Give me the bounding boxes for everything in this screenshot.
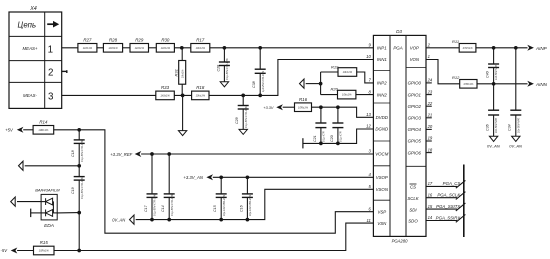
capacitor C29 (235, 95, 249, 129)
wire -5V rail to VSN (54, 223, 373, 250)
svg-text:R29: R29 (135, 38, 144, 43)
svg-text:DGND: DGND (375, 127, 388, 132)
net +3.3V_REF (110, 151, 373, 157)
resistor R30 (156, 38, 174, 53)
svg-text:1n0-50V-NP0: 1n0-50V-NP0 (495, 64, 498, 80)
net AINP (527, 45, 547, 51)
resistor R18 (192, 85, 209, 100)
net flag PGA_CS (426, 180, 465, 188)
resistor R27 (78, 38, 97, 53)
svg-text:GPIO4: GPIO4 (408, 127, 422, 132)
svg-text:0V_AN: 0V_AN (509, 144, 522, 149)
svg-text:C34: C34 (508, 124, 512, 131)
svg-text:13: 13 (366, 112, 371, 117)
svg-text:C38: C38 (252, 81, 256, 88)
svg-text:VOP: VOP (410, 46, 419, 51)
wire VON (426, 60, 460, 84)
net flag PGA_SSIRX (426, 215, 465, 223)
svg-text:47R±1%: 47R±1% (463, 82, 474, 86)
node junction (77, 164, 81, 168)
svg-text:0.1µ-50V-X7R-10%: 0.1µ-50V-X7R-10% (81, 140, 84, 162)
node junction (219, 218, 223, 222)
resistor R20 (321, 87, 374, 99)
svg-text:R14: R14 (39, 120, 48, 125)
node junction C16 (246, 175, 250, 179)
svg-text:GPIO0: GPIO0 (408, 81, 422, 86)
node junction (319, 142, 323, 146)
node junction (77, 249, 81, 253)
svg-text:PGA_SCLK: PGA_SCLK (437, 193, 461, 198)
svg-text:10µ-16V-X5R-20%: 10µ-16V-X5R-20% (223, 194, 226, 216)
svg-text:EDA: EDA (44, 223, 54, 229)
wire to DVDD (312, 107, 374, 117)
node junction (319, 72, 323, 95)
svg-text:PGA_SSIRX: PGA_SSIRX (436, 215, 462, 220)
svg-text:+3.3V_AN: +3.3V_AN (183, 175, 203, 180)
node junction diode (77, 211, 81, 215)
bus line SPI (463, 165, 465, 238)
svg-text:0.1µ-X7R: 0.1µ-X7R (340, 131, 343, 142)
svg-text:C19: C19 (71, 187, 75, 194)
svg-text:0.1µ-50V-X7R-10%: 0.1µ-50V-X7R-10% (245, 106, 248, 128)
svg-text:10: 10 (366, 54, 371, 59)
svg-text:10n-50V-NP0: 10n-50V-NP0 (517, 117, 520, 133)
ground (220, 82, 228, 87)
svg-text:GPIO6: GPIO6 (408, 150, 422, 155)
wire (123, 47, 130, 49)
wire to AINN (477, 83, 528, 85)
net AINN (527, 81, 547, 87)
capacitor C17 (144, 154, 158, 220)
svg-text:1k0±1%: 1k0±1% (160, 94, 170, 98)
resistor R14 (33, 120, 54, 135)
svg-text:MEAS-: MEAS- (23, 93, 37, 98)
node junction C28 (223, 46, 227, 50)
capacitor C19 (71, 166, 85, 213)
svg-text:C20: C20 (330, 135, 334, 142)
svg-text:AINP: AINP (535, 46, 548, 51)
svg-text:20: 20 (427, 124, 433, 129)
svg-text:0.1µ-50V-X7R-10%: 0.1µ-50V-X7R-10% (154, 194, 157, 216)
svg-text:GPIO1: GPIO1 (408, 92, 422, 97)
node junction C40 (492, 46, 496, 50)
wire to -5V rail (78, 213, 80, 251)
svg-text:GPIO5: GPIO5 (408, 139, 422, 144)
node junction C21 (319, 105, 323, 109)
svg-text:C14: C14 (161, 205, 165, 212)
svg-text:18: 18 (428, 147, 433, 152)
svg-text:R27: R27 (83, 38, 92, 43)
svg-text:+3.3V: +3.3V (263, 106, 273, 110)
resistor R28 (103, 38, 122, 53)
svg-text:11: 11 (366, 218, 370, 223)
svg-text:VSN: VSN (377, 221, 387, 226)
svg-text:10µ-16V-X5R-20%: 10µ-16V-X5R-20% (249, 194, 252, 216)
capacitor C14 (161, 154, 175, 220)
svg-text:16: 16 (428, 192, 433, 197)
ground arrow 0V_AN (509, 136, 522, 148)
port arrow 0V (19, 161, 24, 170)
node junction C14 (167, 152, 171, 156)
svg-text:VON: VON (410, 57, 420, 62)
svg-text:1k0±1%: 1k0±1% (135, 46, 145, 50)
svg-text:1k0±1%: 1k0±1% (161, 46, 171, 50)
net +3.3V_AN (183, 174, 373, 180)
power +5V (5, 127, 33, 133)
node junction (167, 218, 171, 222)
node junction R30/R31 (180, 46, 184, 50)
node junction C17 (150, 152, 154, 156)
svg-text:MEAS+: MEAS+ (22, 46, 37, 51)
power -5V (1, 248, 34, 254)
resistor R31 (174, 48, 186, 96)
svg-text:GPIO2: GPIO2 (408, 104, 422, 109)
capacitor C15 (213, 177, 227, 219)
svg-text:C15: C15 (213, 205, 217, 212)
node junction C40/C36 (492, 82, 496, 86)
connector X4 (9, 6, 62, 108)
node junction (150, 218, 154, 222)
svg-text:10k±1%: 10k±1% (342, 93, 352, 97)
net 0V_AN (112, 189, 373, 224)
svg-text:C16: C16 (239, 205, 243, 212)
svg-text:Цепь: Цепь (18, 20, 37, 29)
IC SPI pin names (407, 184, 419, 224)
IC section dividers right (406, 68, 426, 167)
svg-text:R33: R33 (161, 85, 170, 90)
svg-text:10R±1%: 10R±1% (39, 249, 50, 253)
svg-text:BAR43AFILM: BAR43AFILM (35, 187, 60, 192)
wire to INP1 (210, 47, 374, 49)
wire to ground (182, 95, 184, 130)
svg-text:SCLK: SCLK (407, 196, 419, 201)
svg-text:47R±1%: 47R±1% (463, 46, 474, 50)
svg-text:C21: C21 (313, 135, 317, 142)
svg-text:14: 14 (428, 215, 433, 220)
node junction C34 (514, 46, 518, 50)
svg-text:PGA_SSITX: PGA_SSITX (436, 204, 461, 209)
svg-text:INN2: INN2 (377, 92, 387, 97)
svg-text:10n-50V-NP0: 10n-50V-NP0 (495, 117, 498, 133)
svg-text:X4: X4 (29, 6, 37, 12)
svg-text:PGA280: PGA280 (392, 238, 409, 243)
svg-text:0.1µ-50V-X7R-10%: 0.1µ-50V-X7R-10% (81, 177, 84, 199)
svg-text:R11: R11 (452, 39, 459, 44)
IC right pin names, numbers, stubs (408, 43, 433, 156)
svg-text:VOCM: VOCM (375, 152, 388, 157)
IC section dividers left (373, 71, 390, 201)
svg-text:1: 1 (428, 54, 430, 59)
capacitor C40 (486, 48, 500, 84)
wire MEAS+ from connector (62, 47, 78, 49)
node junction C20 (336, 105, 340, 109)
net +3.3V (263, 104, 294, 110)
svg-text:R12: R12 (452, 75, 460, 80)
svg-text:R17: R17 (196, 38, 205, 43)
node junction (336, 142, 340, 146)
ground arrow 0V_AN (487, 136, 500, 148)
capacitor C20 (330, 107, 343, 143)
resistor R29 (130, 38, 149, 53)
svg-text:R30: R30 (161, 38, 170, 43)
capacitor C18 (71, 130, 85, 166)
svg-text:1k0±1%: 1k0±1% (108, 46, 118, 50)
node junction C38 bottom (258, 94, 262, 98)
svg-text:10k±1%: 10k±1% (196, 94, 206, 98)
svg-text:VSON: VSON (376, 187, 389, 192)
capacitor C38 (252, 48, 266, 96)
svg-text:PGA: PGA (393, 45, 402, 50)
svg-text:C40: C40 (486, 71, 490, 78)
svg-text:R18: R18 (196, 85, 205, 90)
svg-text:R28: R28 (109, 38, 118, 43)
wire (174, 47, 190, 49)
resistor R16 (295, 97, 312, 112)
node junction C38 (258, 46, 262, 50)
node junction C15 (219, 175, 223, 179)
svg-text:C18: C18 (71, 150, 75, 157)
node junction C29 (241, 94, 245, 98)
svg-text:1k0±1%: 1k0±1% (83, 46, 93, 50)
svg-text:10R±1%: 10R±1% (38, 128, 49, 132)
svg-text:C28: C28 (216, 65, 220, 72)
diode assembly EDA BAR43AFILM (35, 187, 60, 229)
net flag PGA_SSITX (426, 203, 465, 211)
port arrow diode top (11, 197, 41, 206)
svg-text:R31: R31 (174, 69, 179, 76)
wire (149, 47, 157, 49)
svg-text:AINN: AINN (535, 82, 548, 87)
svg-text:INP2: INP2 (377, 81, 387, 86)
svg-text:22: 22 (427, 101, 433, 106)
svg-text:R20: R20 (331, 87, 339, 92)
svg-text:VSP: VSP (377, 209, 386, 214)
svg-text:VSOP: VSOP (376, 175, 388, 180)
svg-text:10k±1%: 10k±1% (196, 46, 206, 50)
svg-text:INP1: INP1 (377, 46, 387, 51)
svg-text:1: 1 (48, 45, 53, 56)
svg-text:19: 19 (428, 136, 433, 141)
capacitor C36 (486, 84, 500, 136)
svg-text:D3: D3 (396, 29, 402, 34)
capacitor C16 (239, 177, 253, 219)
resistor R33 (156, 85, 175, 100)
wire DGND (303, 129, 374, 143)
wire (174, 94, 191, 96)
svg-text:INN1: INN1 (377, 57, 387, 62)
svg-text:R16: R16 (299, 97, 308, 102)
svg-text:23: 23 (427, 89, 433, 94)
svg-text:C17: C17 (144, 204, 148, 212)
wire (97, 47, 104, 49)
svg-text:SDO: SDO (408, 219, 418, 224)
svg-text:SDI: SDI (409, 207, 417, 212)
port arrow input bias (300, 79, 321, 88)
wire +5V rail to VSP (54, 130, 374, 233)
svg-text:3: 3 (48, 92, 54, 103)
node junction C18 (77, 128, 81, 132)
svg-text:2: 2 (48, 68, 53, 79)
wire diode to rail (57, 212, 79, 214)
capacitor C28 (216, 48, 230, 82)
svg-text:+3.3V_REF: +3.3V_REF (110, 152, 132, 157)
resistor R12 (452, 75, 477, 88)
ground (239, 129, 247, 134)
svg-text:PGA_CS: PGA_CS (443, 181, 461, 186)
pin 2 stub (62, 70, 67, 73)
svg-text:0V_AN: 0V_AN (112, 217, 125, 222)
svg-text:CS: CS (410, 185, 416, 190)
svg-text:R15: R15 (40, 240, 49, 245)
IC left pin names and numbers (366, 43, 389, 226)
capacitor C34 (508, 48, 522, 136)
svg-text:10k±1%: 10k±1% (343, 70, 353, 74)
resistor R17 (191, 38, 210, 53)
svg-text:C36: C36 (486, 124, 490, 131)
svg-text:0V_AN: 0V_AN (487, 144, 500, 149)
svg-text:DVDD: DVDD (376, 115, 388, 120)
resistor R19 (321, 64, 374, 83)
svg-text:15: 15 (428, 204, 433, 209)
terminal bar (31, 209, 41, 218)
svg-text:21: 21 (427, 113, 433, 118)
node junction (246, 218, 250, 222)
svg-text:10R±1%: 10R±1% (298, 105, 309, 109)
svg-text:GPIO3: GPIO3 (408, 116, 422, 121)
svg-text:12: 12 (366, 124, 371, 129)
svg-text:0.1µ-X7R: 0.1µ-X7R (323, 131, 326, 142)
svg-text:R19: R19 (331, 64, 339, 69)
svg-text:17: 17 (428, 181, 433, 186)
wire MEAS- from connector (62, 94, 156, 96)
wire to AINP (476, 47, 528, 49)
wire 0V tap (25, 165, 79, 167)
svg-text:24: 24 (427, 78, 433, 83)
node junction R31/R33 (181, 94, 185, 98)
ground (178, 131, 186, 136)
svg-text:C29: C29 (235, 117, 239, 124)
wire to INN1 (209, 60, 373, 96)
svg-text:0.1µ-50V-X7R-10%: 0.1µ-50V-X7R-10% (226, 58, 229, 80)
svg-text:1µ0-25V-X7R-10%: 1µ0-25V-X7R-10% (262, 70, 265, 92)
terminal bar (302, 138, 304, 148)
net flag PGA_SCLK (426, 192, 465, 200)
resistor R15 (34, 240, 55, 255)
op-amp U1 IC D3 PGA280 (373, 29, 426, 243)
svg-text:10k±1%: 10k±1% (183, 70, 185, 78)
svg-text:0.1µ-50V-X7R-10%: 0.1µ-50V-X7R-10% (171, 194, 174, 216)
wire VOP (426, 47, 459, 49)
capacitor C21 (313, 107, 326, 143)
svg-text:+5V: +5V (5, 127, 14, 132)
resistor R11 (452, 39, 476, 52)
